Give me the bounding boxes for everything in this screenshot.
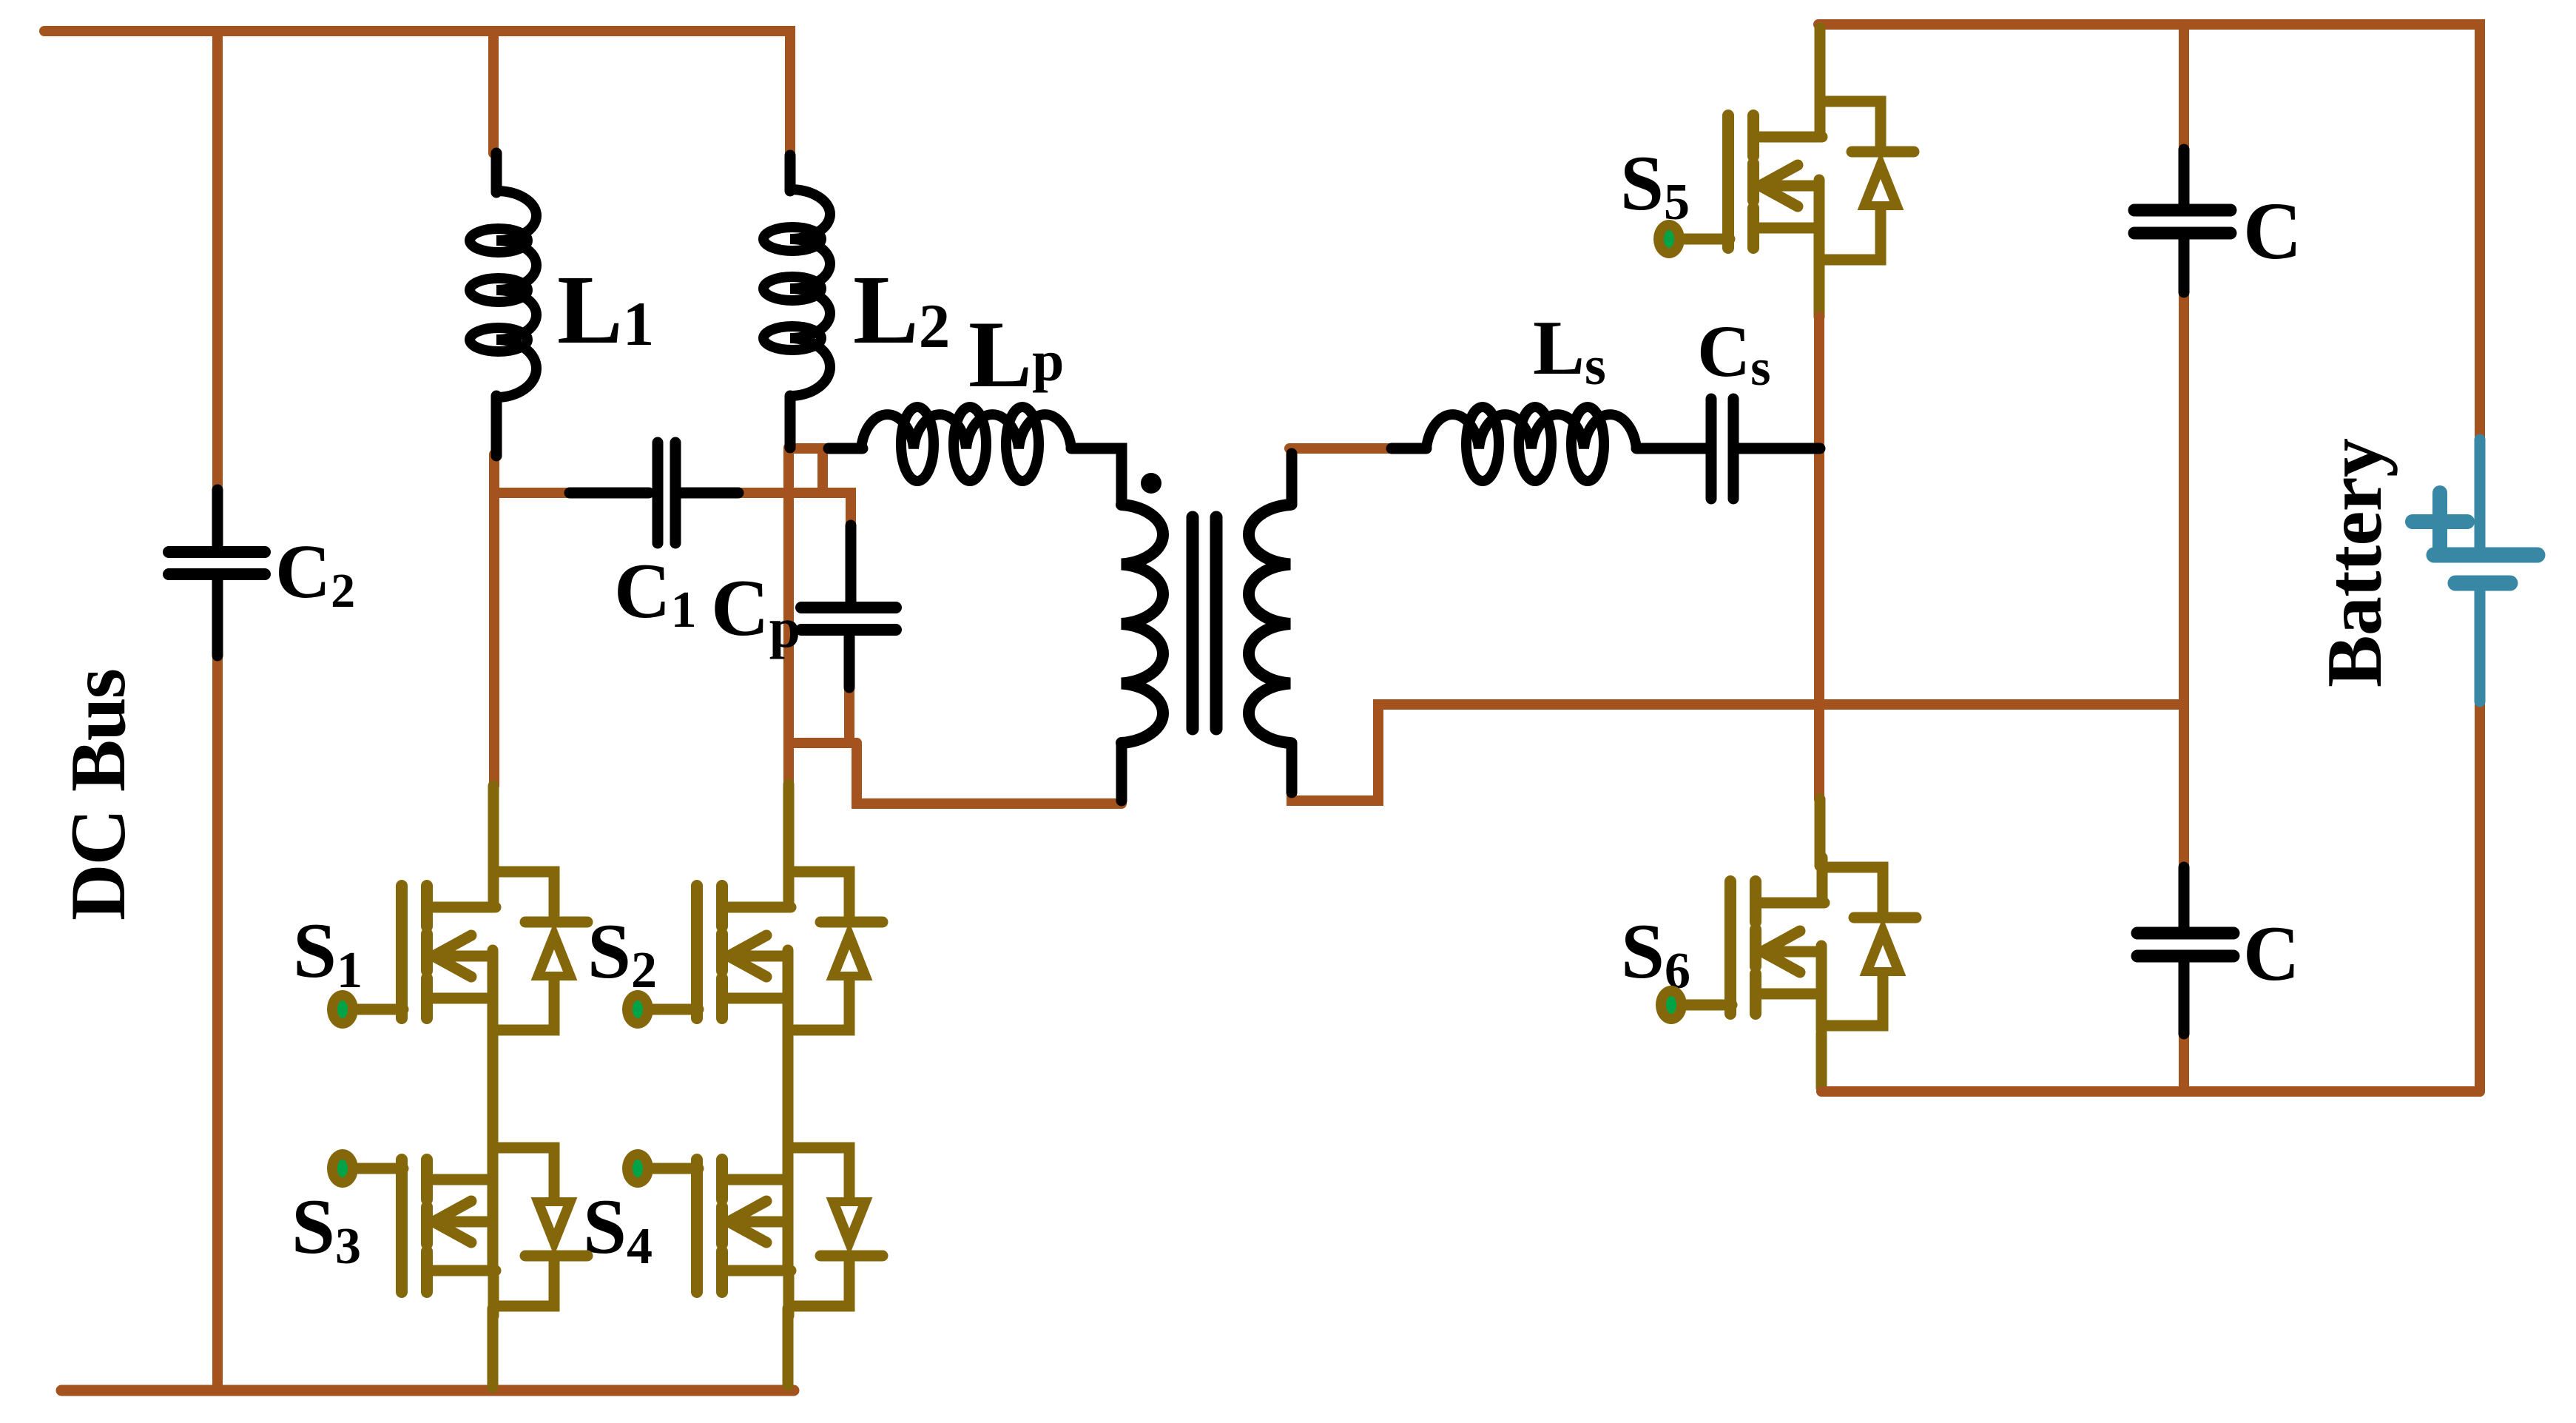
transistor S5	[1653, 92, 1914, 264]
wire S5-S6 link brown	[1814, 317, 1824, 799]
svg-text:Battery: Battery	[2311, 438, 2398, 687]
wire L2 bottom column	[783, 448, 794, 785]
svg-text:S3: S3	[291, 1183, 361, 1275]
inductor L2	[763, 155, 830, 448]
wire C column lower brown	[2179, 1034, 2189, 1091]
capacitor C top	[2134, 149, 2231, 292]
wire right rail top	[1818, 24, 2480, 440]
wire S6 source olive	[1816, 1033, 1827, 1088]
capacitor C1	[570, 443, 738, 543]
inductor Ls	[1392, 407, 1706, 481]
transistor S1	[327, 862, 587, 1035]
wire DC bus lower	[212, 656, 223, 1390]
wire C column middle brown	[2179, 292, 2189, 867]
wire mid node horizontal	[789, 738, 857, 748]
svg-text:C1: C1	[614, 548, 697, 639]
transistor S2	[622, 862, 883, 1035]
inductor L1	[470, 153, 536, 456]
wire leg1 olive segments	[493, 786, 493, 1387]
svg-text:C: C	[2243, 186, 2302, 276]
capacitor Cp	[801, 525, 896, 687]
transistor S3	[327, 1143, 587, 1316]
svg-text:L1: L1	[557, 255, 654, 364]
transformer T1	[1122, 454, 1292, 801]
svg-text:C: C	[2243, 910, 2300, 997]
capacitor C bottom	[2137, 867, 2233, 1034]
svg-text:DC Bus: DC Bus	[55, 668, 141, 921]
wire leg2 olive segments	[788, 784, 789, 1385]
inductor Lp	[829, 407, 1122, 505]
wire secondary top brown	[1289, 443, 1392, 454]
wire L1 bottom column	[489, 454, 499, 786]
wire bottom rail left	[61, 1385, 794, 1396]
battery	[2413, 440, 2538, 702]
wire node stub to C1 row	[817, 448, 828, 493]
wire C column upper brown	[2179, 24, 2189, 149]
wire bottom rail right	[1821, 1086, 2480, 1097]
wire C1 row right to Cp	[735, 493, 851, 527]
transistor S6	[1656, 858, 1916, 1030]
wire secondary bottom return to mid	[1292, 704, 2184, 801]
wire L1 top drop	[488, 31, 499, 153]
transistor S4	[622, 1143, 883, 1316]
wire S5 drain olive	[1815, 28, 1826, 124]
svg-text:Cs: Cs	[1697, 310, 1770, 397]
svg-text:S1: S1	[293, 907, 363, 999]
wire top rail left	[44, 31, 790, 155]
svg-text:S4: S4	[583, 1183, 653, 1275]
wire DC bus upper	[212, 31, 223, 491]
wire node horizontal at L2 bottom	[789, 443, 830, 454]
wire S5 source olive	[1814, 260, 1825, 317]
svg-text:S5: S5	[1620, 140, 1690, 231]
svg-text:S2: S2	[587, 908, 657, 999]
wire battery bottom brown	[2475, 702, 2485, 1091]
wire Cp bottom lead brown	[844, 686, 854, 743]
svg-text:L2: L2	[853, 255, 950, 364]
wire C1 row left	[494, 488, 576, 498]
svg-text:C2: C2	[275, 529, 355, 618]
capacitor C2	[169, 490, 265, 656]
capacitor Cs	[1711, 399, 1820, 499]
wire S6 drain olive	[1815, 799, 1826, 866]
svg-text:Lp: Lp	[968, 301, 1064, 407]
svg-text:S6: S6	[1621, 908, 1690, 1000]
svg-text:Ls: Ls	[1533, 304, 1606, 397]
wire primary bottom return	[857, 743, 1122, 804]
